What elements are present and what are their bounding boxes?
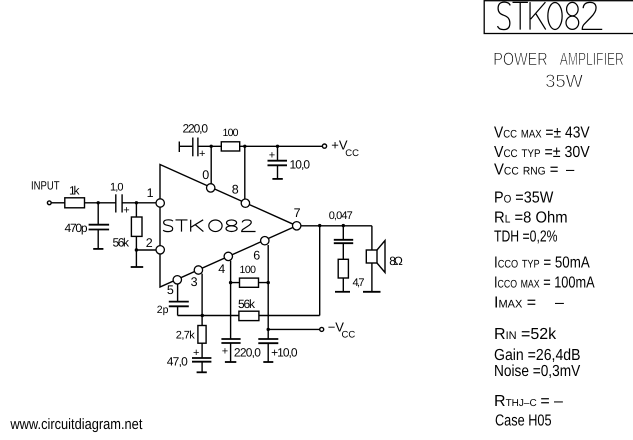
svg-text:100: 100 xyxy=(240,264,257,276)
svg-text:VCC TYP =± 30V: VCC TYP =± 30V xyxy=(494,144,590,161)
svg-text:4,7: 4,7 xyxy=(353,277,365,289)
svg-text:TDH =0,2%: TDH =0,2% xyxy=(494,229,558,246)
svg-text:CC: CC xyxy=(342,330,356,341)
svg-text:6: 6 xyxy=(253,248,260,262)
svg-text:+: + xyxy=(123,204,129,216)
svg-text:8Ω: 8Ω xyxy=(389,254,403,268)
svg-text:56k: 56k xyxy=(238,297,256,311)
svg-text:47,0: 47,0 xyxy=(167,355,188,369)
svg-text:+: + xyxy=(222,345,228,357)
svg-text:1,0: 1,0 xyxy=(110,182,124,194)
svg-text:1k: 1k xyxy=(69,183,81,197)
svg-text:VCC RNG =–: VCC RNG =– xyxy=(494,161,574,178)
svg-text:RL =8 Ohm: RL =8 Ohm xyxy=(494,210,568,227)
svg-text:+: + xyxy=(193,347,199,359)
svg-text:VCC MAX =± 43V: VCC MAX =± 43V xyxy=(494,125,590,142)
svg-text:POWERAMPLIFIER: POWERAMPLIFIER xyxy=(493,49,624,69)
svg-text:2,7k: 2,7k xyxy=(176,329,196,341)
svg-text:ICCO MAX = 100mA: ICCO MAX = 100mA xyxy=(494,275,595,292)
svg-text:+10,0: +10,0 xyxy=(271,346,298,360)
svg-text:INPUT: INPUT xyxy=(31,179,60,193)
svg-text:0: 0 xyxy=(202,168,209,182)
svg-text:5: 5 xyxy=(167,283,174,297)
svg-text:Case H05: Case H05 xyxy=(495,413,552,430)
svg-text:RTHJ–C=–: RTHJ–C=– xyxy=(494,393,563,410)
svg-text:PO =35W: PO =35W xyxy=(494,190,554,207)
svg-text:470p: 470p xyxy=(65,221,88,235)
svg-text:10,0: 10,0 xyxy=(290,158,311,172)
svg-text:www.circuitdiagram.net: www.circuitdiagram.net xyxy=(10,416,144,433)
svg-text:4: 4 xyxy=(218,262,225,276)
svg-text:+: + xyxy=(269,150,275,162)
svg-text:1: 1 xyxy=(147,186,154,200)
svg-text:RIN =52k: RIN =52k xyxy=(494,326,557,343)
svg-text:7: 7 xyxy=(294,206,301,220)
svg-text:0,047: 0,047 xyxy=(329,210,353,222)
svg-text:2p: 2p xyxy=(157,304,169,316)
svg-text:220,0: 220,0 xyxy=(183,121,209,135)
svg-text:Noise =0,3mV: Noise =0,3mV xyxy=(494,363,580,380)
svg-text:35W: 35W xyxy=(545,71,583,91)
svg-text:CC: CC xyxy=(345,148,359,159)
svg-text:8: 8 xyxy=(232,182,239,196)
svg-text:3: 3 xyxy=(191,275,198,289)
svg-text:+: + xyxy=(199,148,205,160)
svg-text:ICCO TYP = 50mA: ICCO TYP = 50mA xyxy=(494,255,590,272)
svg-text:IMAX =–: IMAX =– xyxy=(494,294,564,311)
svg-text:220,0: 220,0 xyxy=(234,346,261,360)
svg-text:2: 2 xyxy=(146,236,153,250)
svg-text:100: 100 xyxy=(223,127,239,139)
svg-text:Gain =26,4dB: Gain =26,4dB xyxy=(494,347,581,364)
svg-text:56k: 56k xyxy=(113,236,131,250)
